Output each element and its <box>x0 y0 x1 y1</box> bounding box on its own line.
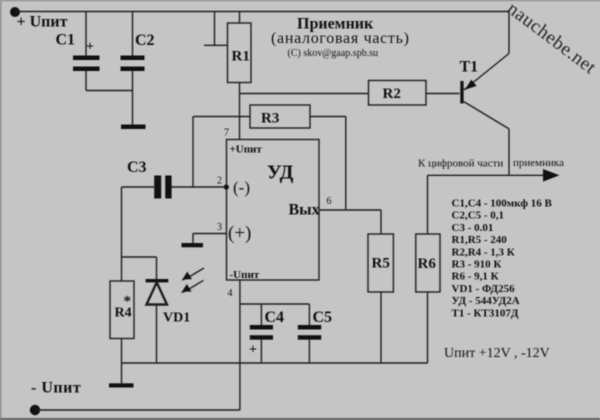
wire R3 to output node <box>345 117 347 211</box>
svg-text:2: 2 <box>217 176 222 187</box>
svg-text:Вых: Вых <box>289 202 320 219</box>
wire R5 to rail <box>380 292 382 363</box>
pin 2 <box>217 176 229 190</box>
wire T1 collector down <box>508 129 510 175</box>
svg-text:6: 6 <box>327 196 332 207</box>
svg-text:(аналоговая часть): (аналоговая часть) <box>271 30 410 47</box>
svg-text:VD1 - ФД256: VD1 - ФД256 <box>452 283 516 295</box>
capacitor C2 <box>121 12 145 125</box>
resistor R4 <box>110 281 134 339</box>
wire pin 3 <box>193 233 227 235</box>
wire R2 to T1 base <box>426 93 460 95</box>
resistor R2 <box>369 81 427 106</box>
svg-text:R5: R5 <box>372 256 390 272</box>
capacitor C3 <box>122 176 172 199</box>
wire ground rail <box>122 362 428 364</box>
wire stub from rail <box>204 12 228 46</box>
svg-text:7: 7 <box>224 128 229 139</box>
wire R1 bottom / pin 7 <box>239 83 241 140</box>
svg-text:C1: C1 <box>56 32 76 49</box>
svg-text:3: 3 <box>217 222 222 233</box>
transistor T1 <box>460 12 510 129</box>
svg-text:+ Uпит: + Uпит <box>17 14 68 31</box>
resistor R3 <box>193 105 346 128</box>
capacitor C4 <box>249 304 273 363</box>
capacitor C5 <box>298 304 321 363</box>
wire C1 to C2 <box>86 90 133 92</box>
svg-text:C3: C3 <box>127 159 147 176</box>
svg-text:C2: C2 <box>135 32 155 49</box>
wire C4 C5 branch <box>240 303 310 305</box>
wire output pin 6 <box>319 209 381 211</box>
capacitor C1 <box>73 12 100 91</box>
wire junction R4 VD1 <box>122 257 157 281</box>
title Priemnik <box>271 16 410 60</box>
svg-text:К цифровой части: К цифровой части <box>418 158 503 170</box>
svg-text:+Uпит: +Uпит <box>230 144 263 156</box>
svg-text:УД - 544УД2А: УД - 544УД2А <box>452 295 520 307</box>
wire -Upit line <box>35 409 240 411</box>
svg-text:R1,R5 - 240: R1,R5 - 240 <box>452 234 508 246</box>
resistor R6 <box>416 234 440 292</box>
wire R1 to R2 <box>240 93 369 95</box>
svg-text:(C) skov@gaap.spb.su: (C) skov@gaap.spb.su <box>288 48 379 59</box>
wire to R6 <box>427 175 429 234</box>
wire R3 to pin 2 node <box>192 117 194 188</box>
resistor R1 <box>228 12 252 83</box>
wire pin 4 to -Upit <box>239 280 241 410</box>
svg-text:R6 - 9,1 К: R6 - 9,1 К <box>452 271 499 283</box>
svg-text:- Uпит: - Uпит <box>31 380 81 397</box>
svg-text:*: * <box>124 294 132 310</box>
svg-text:R3: R3 <box>261 111 279 127</box>
svg-text:C4: C4 <box>265 309 285 326</box>
svg-text:C5: C5 <box>313 309 333 326</box>
svg-text:Uпит +12V , -12V: Uпит +12V , -12V <box>444 346 550 361</box>
svg-text:(+): (+) <box>228 223 251 244</box>
svg-text:R2,R4 - 1,3 К: R2,R4 - 1,3 К <box>452 246 515 258</box>
ground pin 3 <box>182 234 204 248</box>
op-amp UD <box>227 140 320 282</box>
node -Upit <box>30 405 40 415</box>
svg-text:R6: R6 <box>418 256 437 272</box>
ground C2 <box>121 125 146 130</box>
svg-text:УД: УД <box>267 162 294 184</box>
svg-text:(-): (-) <box>233 178 250 197</box>
wire to R5 <box>380 210 382 234</box>
svg-text:R1: R1 <box>232 49 250 65</box>
svg-text:-Uпит: -Uпит <box>230 269 260 281</box>
svg-text:4: 4 <box>228 288 233 299</box>
svg-text:C2,C5 - 0,1: C2,C5 - 0,1 <box>452 210 505 222</box>
wire R6 to ground rail <box>427 292 429 363</box>
svg-text:VD1: VD1 <box>163 311 190 326</box>
wire C3 down <box>121 187 123 257</box>
svg-text:C1,C4 - 100мкф 16 В: C1,C4 - 100мкф 16 В <box>452 198 553 210</box>
photodiode VD1 <box>146 268 204 363</box>
wire to digital part with arrow <box>428 169 560 182</box>
svg-text:приемника: приемника <box>513 157 564 169</box>
resistor R5 <box>368 234 393 292</box>
svg-text:+: + <box>249 343 257 358</box>
svg-text:R3 - 910 К: R3 - 910 К <box>452 259 502 271</box>
svg-text:R2: R2 <box>383 86 401 102</box>
node +Upit <box>10 7 20 17</box>
wire R4 to ground <box>121 339 123 384</box>
svg-text:T1: T1 <box>460 59 479 76</box>
svg-text:C3 - 0.01: C3 - 0.01 <box>452 222 494 234</box>
wire pin 2 <box>172 186 227 188</box>
wire top rail <box>15 11 510 13</box>
svg-text:+: + <box>86 40 94 55</box>
svg-text:Т1 - КТ3107Д: Т1 - КТ3107Д <box>452 307 519 319</box>
ground rail symbol <box>109 383 134 387</box>
